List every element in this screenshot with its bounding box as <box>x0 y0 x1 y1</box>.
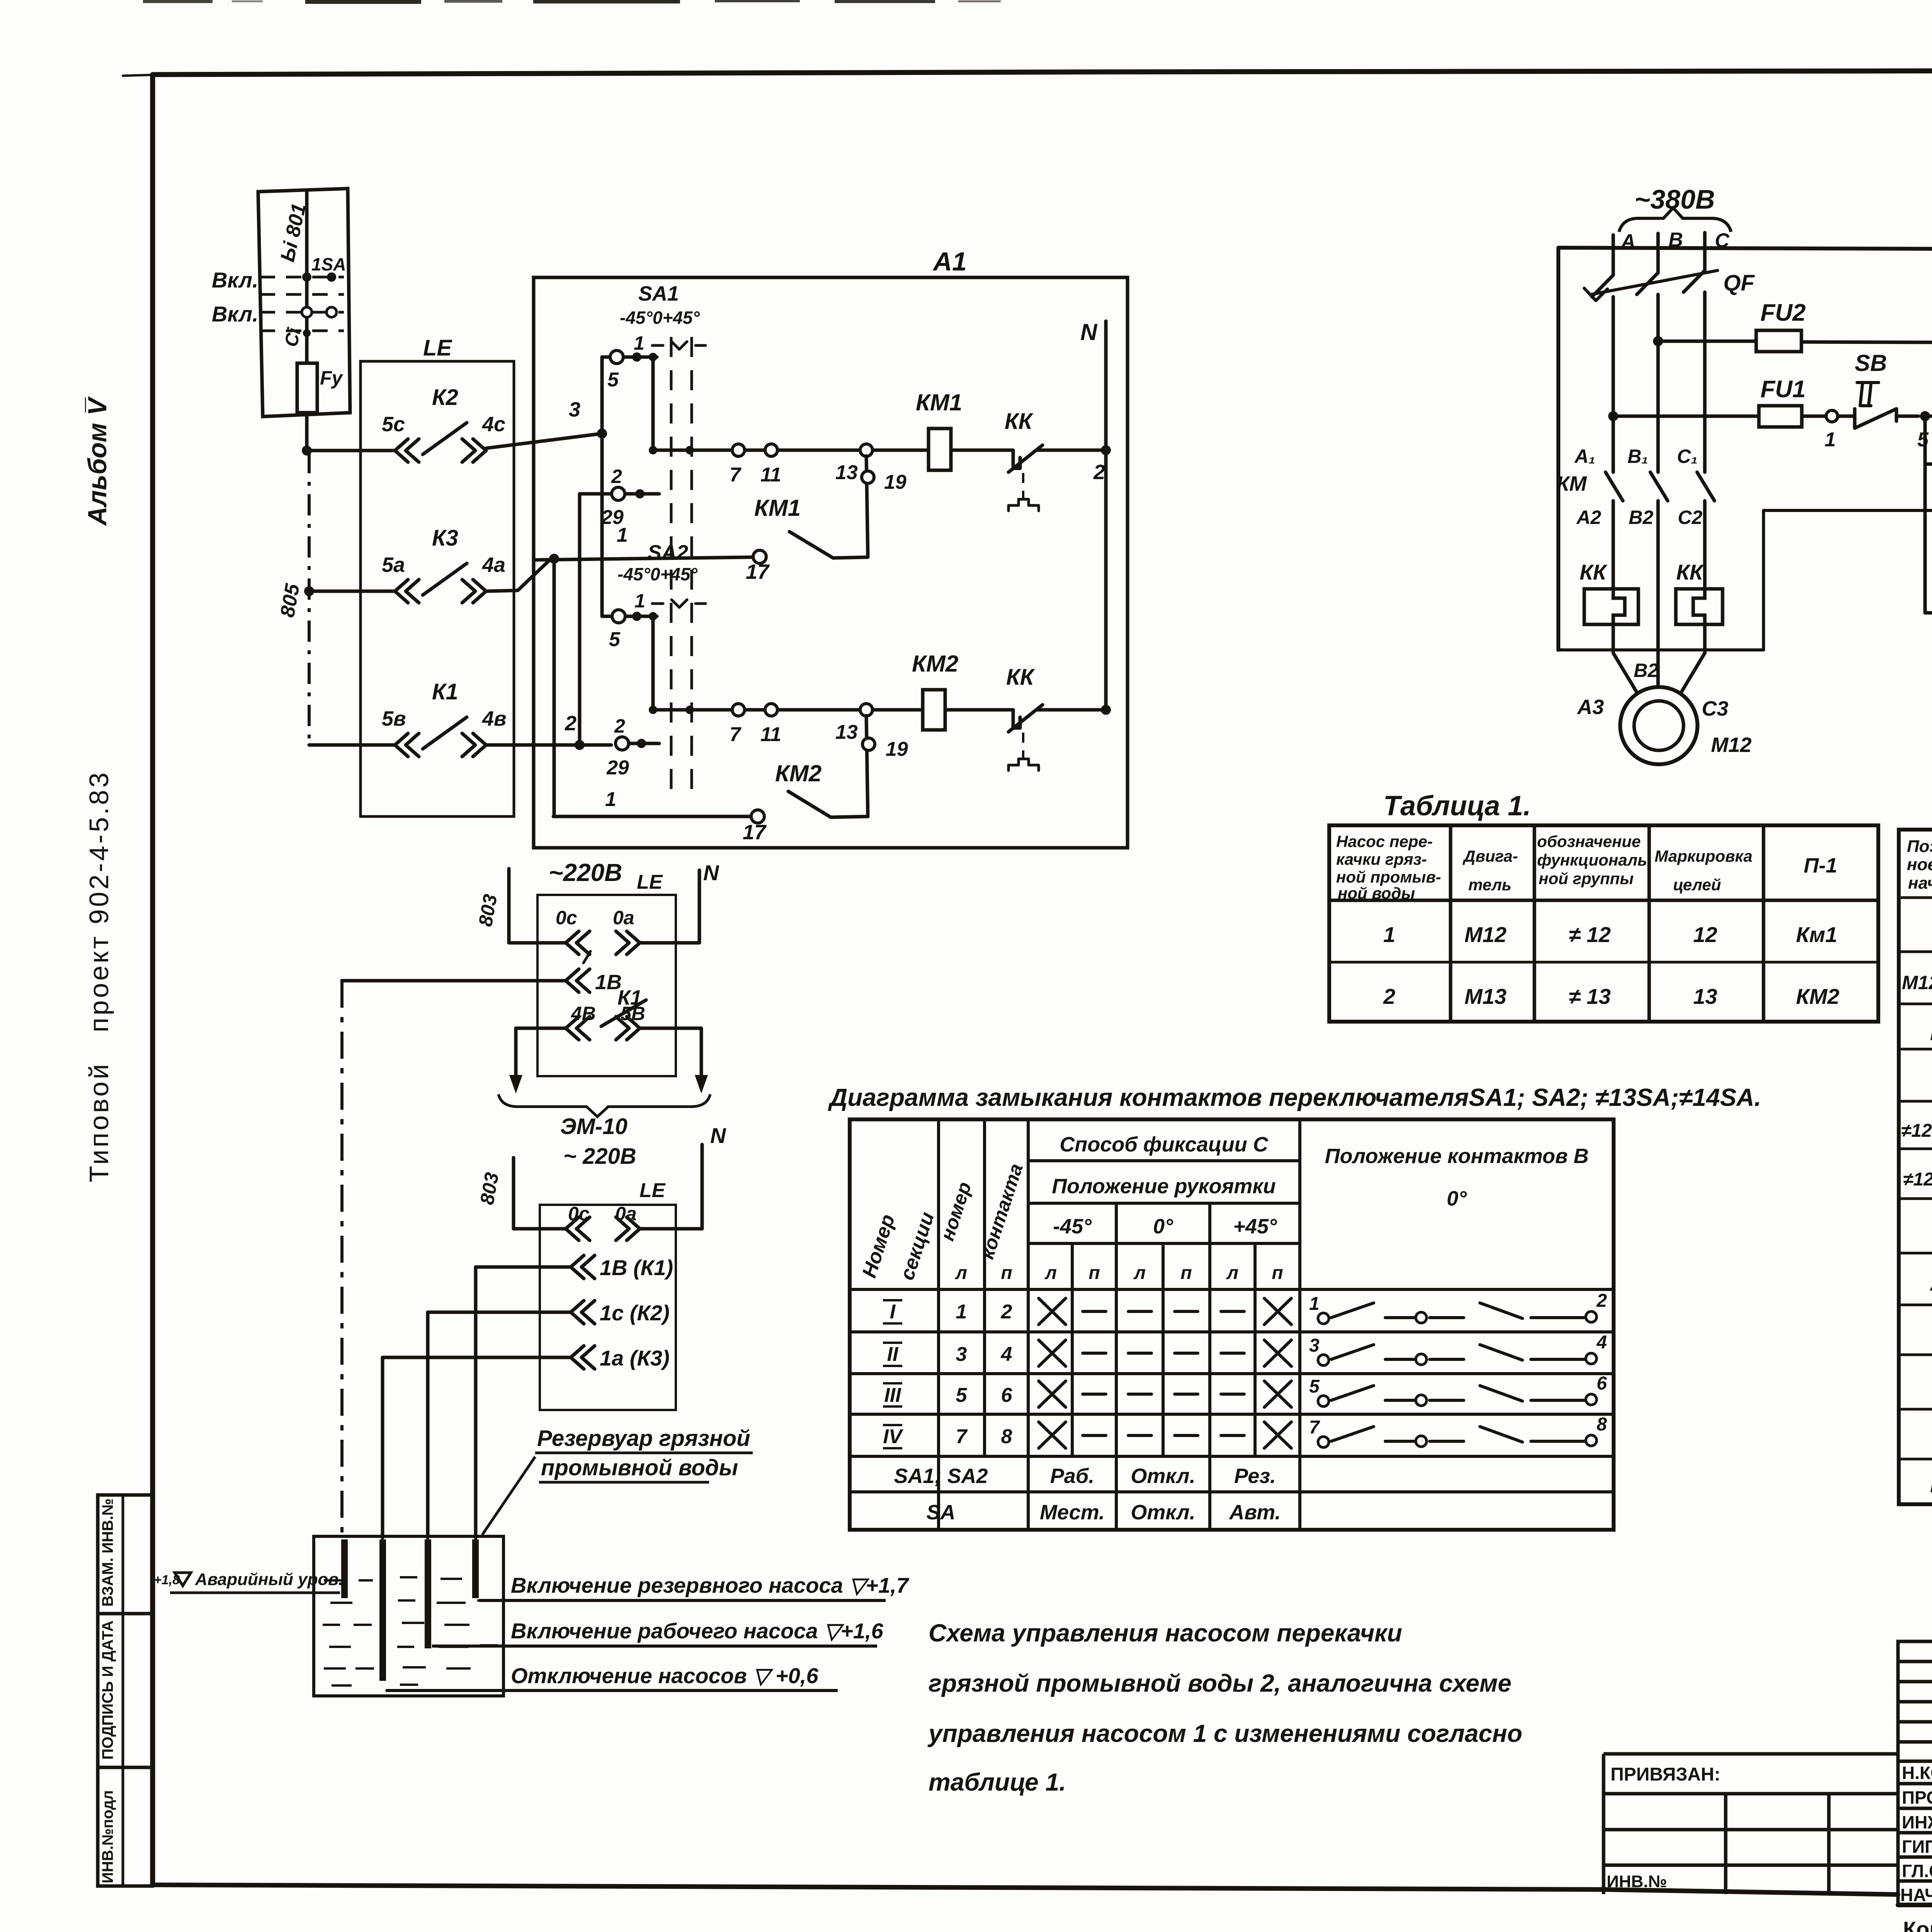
svg-text:1: 1 <box>1825 429 1836 451</box>
svg-text:п: п <box>1088 1263 1100 1283</box>
auxiliary contact KM2 row <box>553 760 868 844</box>
svg-text:НАЧ.ОТД: НАЧ.ОТД <box>1900 1885 1932 1905</box>
Table 1 <box>1329 791 1878 1022</box>
svg-text:7: 7 <box>1309 1417 1320 1438</box>
svg-text:+45°: +45° <box>1233 1215 1277 1238</box>
svg-text:Fу: Fу <box>320 367 344 389</box>
svg-text:функциональ: функциональ <box>1537 851 1647 869</box>
svg-text:ной группы: ной группы <box>1539 869 1634 888</box>
svg-text:Двига-: Двига- <box>1463 847 1518 865</box>
left margin vertical captions <box>83 396 114 1182</box>
svg-text:~ 220В: ~ 220В <box>563 1144 636 1169</box>
wire row 2 with contact K1 <box>309 679 611 757</box>
svg-text:5а: 5а <box>382 553 405 577</box>
svg-text:11: 11 <box>760 723 781 746</box>
svg-text:ной воды: ной воды <box>1338 884 1415 902</box>
svg-text:Позицион-: Позицион- <box>1907 837 1932 856</box>
coil row KM1 <box>653 444 929 486</box>
svg-text:обозначение: обозначение <box>1537 832 1641 850</box>
svg-text:Маркировка: Маркировка <box>1655 847 1752 865</box>
svg-text:л: л <box>955 1263 967 1283</box>
svg-text:13: 13 <box>835 461 858 484</box>
wire row with contact K3 <box>309 526 551 603</box>
svg-text:ной промыв-: ной промыв- <box>1336 868 1441 886</box>
fuse FU <box>297 363 317 413</box>
motor M12 <box>1577 653 1752 764</box>
svg-text:≠ 13: ≠ 13 <box>1569 984 1611 1009</box>
svg-text:В2: В2 <box>1634 660 1658 681</box>
svg-text:1SА: 1SА <box>311 254 346 274</box>
svg-text:Км1: Км1 <box>1796 922 1837 947</box>
svg-text:КК: КК <box>1006 665 1035 690</box>
svg-text:Вкл.: Вкл. <box>212 302 259 326</box>
svg-text:грязной промывной воды 2, анал: грязной промывной воды 2, аналогична схе… <box>929 1669 1512 1697</box>
svg-text:А1: А1 <box>932 247 967 276</box>
svg-text:5: 5 <box>1309 1376 1320 1397</box>
svg-text:ИНЖЕН.: ИНЖЕН. <box>1902 1812 1932 1832</box>
svg-text:12: 12 <box>1693 922 1717 947</box>
svg-text:-45°0+45°: -45°0+45° <box>617 564 697 584</box>
top-left input box (ЯУ) <box>212 189 350 451</box>
svg-text:управления насосом 1 с изменен: управления насосом 1 с изменениями согла… <box>927 1719 1522 1747</box>
wire 1B row <box>342 979 566 983</box>
note text <box>927 1619 1522 1796</box>
svg-text:л: л <box>1044 1263 1057 1283</box>
svg-text:целей: целей <box>1673 876 1721 894</box>
svg-text:8: 8 <box>1597 1414 1607 1435</box>
svg-text:К3: К3 <box>432 526 458 551</box>
svg-text:Откл.: Откл. <box>1131 1464 1195 1488</box>
svg-text:Включение рабочего насоса ▽+1: Включение рабочего насоса ▽+1,6 <box>511 1619 884 1643</box>
svg-text:В₁: В₁ <box>1628 446 1648 467</box>
svg-text:Мест.: Мест. <box>1040 1501 1105 1524</box>
coil row KM2 <box>653 704 923 746</box>
contactor KM main contacts <box>1556 446 1714 685</box>
svg-text:ИНВ.№подл: ИНВ.№подл <box>99 1790 116 1883</box>
svg-text:III: III <box>884 1384 901 1406</box>
svg-text:Диаграмма замыкания контактов: Диаграмма замыкания контактов переключат… <box>828 1083 1761 1111</box>
svg-text:ное обоз-: ное обоз- <box>1907 855 1932 874</box>
bus #12A <box>1558 221 1932 685</box>
svg-text:ПОДПИСЬ И ДАТА: ПОДПИСЬ И ДАТА <box>99 1621 116 1760</box>
svg-text:А3: А3 <box>1577 696 1604 719</box>
svg-text:5: 5 <box>609 628 621 651</box>
svg-text:2: 2 <box>614 715 625 737</box>
svg-text:А2: А2 <box>1576 507 1601 528</box>
box A outline <box>1558 344 1932 685</box>
svg-text:М13: М13 <box>1464 984 1507 1009</box>
svg-text:Вкл.: Вкл. <box>212 268 259 292</box>
LE block 2 (~220V) <box>342 859 726 1169</box>
svg-text:1с (К2): 1с (К2) <box>600 1301 670 1325</box>
svg-text:FU1: FU1 <box>1760 376 1806 403</box>
svg-text:LЕ: LЕ <box>637 871 663 893</box>
svg-text:≠12,13УА: ≠12,13УА <box>1901 1121 1932 1141</box>
svg-text:-45°0+45°: -45°0+45° <box>620 308 700 328</box>
start button SB <box>1925 319 1932 451</box>
svg-text:КМ1: КМ1 <box>754 495 801 521</box>
svg-text:1: 1 <box>634 332 645 354</box>
svg-text:QF: QF <box>1723 270 1755 296</box>
svg-text:Fу: Fу <box>1930 1473 1932 1497</box>
svg-text:19: 19 <box>884 471 906 493</box>
svg-text:М12: М12 <box>1464 922 1507 947</box>
svg-text:п: п <box>1180 1263 1192 1283</box>
svg-text:Таблица 1.: Таблица 1. <box>1383 791 1531 821</box>
contact closing diagram table <box>828 1083 1761 1530</box>
svg-text:4: 4 <box>1001 1343 1012 1366</box>
svg-text:IV: IV <box>883 1425 903 1448</box>
svg-text:13: 13 <box>835 721 858 743</box>
title block <box>1604 1641 1932 1932</box>
svg-text:Альбом V̅: Альбом V̅ <box>83 396 112 526</box>
svg-text:5с: 5с <box>382 413 405 436</box>
svg-text:Способ фиксации С: Способ фиксации С <box>1060 1133 1268 1156</box>
svg-text:ПРОВЕР.: ПРОВЕР. <box>1902 1787 1932 1808</box>
svg-text:п: п <box>1001 1263 1012 1283</box>
svg-text:5: 5 <box>956 1384 968 1406</box>
svg-text:Откл.: Откл. <box>1131 1501 1195 1524</box>
svg-text:0с: 0с <box>556 907 577 929</box>
wire 3 row with contact K2 <box>302 385 602 462</box>
svg-text:~220В: ~220В <box>549 859 622 886</box>
svg-text:тель: тель <box>1468 876 1512 894</box>
svg-text:29: 29 <box>601 506 624 529</box>
thermal contact KK (row 1) <box>1005 409 1111 511</box>
svg-text:2: 2 <box>1001 1301 1012 1323</box>
svg-text:3: 3 <box>1309 1335 1320 1356</box>
contactor coil KM2 <box>912 651 1008 730</box>
svg-text:КК: КК <box>1580 560 1607 584</box>
holding contact KM <box>1925 416 1932 480</box>
circuit-breaker QF <box>1584 233 1755 472</box>
svg-text:4а: 4а <box>482 553 505 577</box>
svg-text:FU2: FU2 <box>1760 299 1806 326</box>
svg-text:≠ 12: ≠ 12 <box>1569 922 1611 947</box>
svg-text:I: I <box>890 1301 896 1323</box>
switch SA2 <box>617 541 706 612</box>
svg-text:С₁: С₁ <box>1677 446 1698 467</box>
svg-text:N: N <box>710 1123 726 1148</box>
svg-text:Резервуар грязной: Резервуар грязной <box>537 1426 750 1451</box>
diagram table footer <box>894 1464 1281 1524</box>
svg-text:л: л <box>1226 1263 1238 1283</box>
svg-text:SА: SА <box>926 1501 955 1524</box>
wire junction down to KM2 aux <box>553 559 556 816</box>
contact K2 <box>395 439 419 462</box>
svg-text:3: 3 <box>956 1343 967 1366</box>
switch 1SA dashed rows <box>260 277 344 331</box>
svg-text:КМ1: КМ1 <box>916 389 962 415</box>
wire up from node 3 <box>600 357 604 434</box>
svg-text:2: 2 <box>611 466 622 487</box>
thermal heaters KK <box>1580 560 1723 653</box>
wire down to SA2 <box>600 357 604 616</box>
svg-text:М12: М12 <box>1711 733 1752 757</box>
svg-text:17: 17 <box>746 560 770 583</box>
fuse FU1 <box>1608 376 1838 451</box>
svg-text:Авт.: Авт. <box>1228 1501 1281 1524</box>
svg-text:КМ2: КМ2 <box>1796 984 1839 1009</box>
svg-text:КК: КК <box>1005 409 1034 434</box>
node 5 row SA2 <box>602 610 657 651</box>
svg-text:Копировал· Апсирова: Копировал· Апсирова <box>1903 1917 1932 1932</box>
reservoir label <box>482 1426 753 1535</box>
X marks and dashes <box>1039 1298 1291 1448</box>
svg-text:В2: В2 <box>1629 507 1653 528</box>
svg-text:1: 1 <box>1309 1294 1320 1314</box>
svg-text:0а: 0а <box>613 907 634 929</box>
svg-text:4в: 4в <box>482 707 507 730</box>
svg-text:19: 19 <box>886 738 908 760</box>
brace EM-10 <box>498 1094 710 1117</box>
wire 29 down to row 2 <box>578 494 582 743</box>
svg-text:ИНВ.№: ИНВ.№ <box>1607 1872 1667 1891</box>
contactor coil KM1 <box>916 389 1008 470</box>
arrows down to EM-10 <box>514 1028 518 1080</box>
switch position sketches <box>1309 1291 1607 1447</box>
svg-text:п: п <box>1272 1263 1283 1283</box>
svg-text:7: 7 <box>730 464 742 486</box>
svg-text:1: 1 <box>1383 922 1395 947</box>
interposing relay П-1 <box>1925 464 1932 658</box>
auxiliary contact KM1 row <box>534 461 1105 583</box>
svg-text:5: 5 <box>1917 429 1929 451</box>
wire node5 SA2 to coil row 2 <box>649 616 657 714</box>
svg-text:5в: 5в <box>382 707 406 730</box>
svg-text:А1: А1 <box>1929 1271 1932 1295</box>
svg-text:Типовой проект 902-4-5.83: Типовой проект 902-4-5.83 <box>84 770 114 1182</box>
svg-text:0°: 0° <box>1447 1187 1467 1210</box>
parts list table <box>1899 830 1932 1504</box>
thermal contact KK (row 2) <box>1006 665 1111 770</box>
switch SA1 <box>620 282 706 794</box>
svg-text:Рез.: Рез. <box>1234 1464 1276 1488</box>
svg-text:4с: 4с <box>482 413 505 436</box>
node 29 row SA1 <box>580 466 659 529</box>
svg-text:1В (К1): 1В (К1) <box>600 1255 673 1280</box>
LE block 3 <box>383 1145 702 1410</box>
svg-text:Раб.: Раб. <box>1050 1464 1095 1488</box>
svg-text:ЭМ-10: ЭМ-10 <box>560 1114 628 1139</box>
svg-text:К2: К2 <box>432 385 458 410</box>
level marks <box>154 1570 910 1690</box>
svg-text:2: 2 <box>1383 984 1395 1009</box>
fuse FU2 <box>1653 299 1932 352</box>
svg-text:М12, М13: М12, М13 <box>1902 972 1932 993</box>
node 5 row SA1 <box>602 350 657 391</box>
svg-text:Аварийный уров.: Аварийный уров. <box>195 1570 343 1589</box>
box A1 outline <box>534 247 1128 848</box>
svg-text:LЕ: LЕ <box>1930 1020 1932 1045</box>
diagram table data rows <box>883 1301 1012 1448</box>
svg-text:SА1: SА1 <box>638 282 679 305</box>
380V supply label and brace <box>1619 184 1731 253</box>
svg-text:1: 1 <box>605 788 616 811</box>
svg-text:КМ2: КМ2 <box>912 651 958 677</box>
svg-text:N: N <box>703 861 719 885</box>
svg-text:LЕ: LЕ <box>639 1179 666 1202</box>
svg-text:ВЗАМ. ИНВ.№: ВЗАМ. ИНВ.№ <box>99 1498 116 1607</box>
svg-text:2: 2 <box>1596 1291 1607 1311</box>
svg-text:Включение резервного насоса ▽+: Включение резервного насоса ▽+1,7 <box>511 1573 910 1597</box>
node 29 row SA2 <box>606 715 659 779</box>
svg-text:29: 29 <box>606 757 629 779</box>
svg-text:С2: С2 <box>1678 507 1702 528</box>
svg-text:SА1; SА2: SА1; SА2 <box>894 1464 988 1488</box>
svg-text:А₁: А₁ <box>1574 446 1595 467</box>
svg-text:таблице 1.: таблице 1. <box>929 1768 1066 1796</box>
electrode wires down to tank <box>342 981 476 1538</box>
reservoir tank <box>314 1536 503 1696</box>
svg-text:0°: 0° <box>1153 1215 1173 1238</box>
svg-text:л: л <box>1133 1263 1146 1283</box>
row 1B(K1) <box>476 1265 571 1269</box>
svg-text:1: 1 <box>956 1301 967 1323</box>
svg-text:Отключение насосов ▽ +0,6: Отключение насосов ▽ +0,6 <box>511 1663 818 1688</box>
node 13/19 drop row 2 <box>862 716 908 816</box>
svg-text:7: 7 <box>730 723 742 746</box>
svg-text:≠12;≠13: ≠12;≠13 <box>1903 1169 1932 1190</box>
svg-text:КМ2: КМ2 <box>775 760 821 786</box>
svg-text:Положение рукоятки: Положение рукоятки <box>1052 1175 1276 1198</box>
svg-text:промывной воды: промывной воды <box>541 1455 738 1480</box>
svg-text:1а (К3): 1а (К3) <box>600 1346 670 1370</box>
svg-text:13: 13 <box>1693 984 1717 1009</box>
LE level-controller box 1 <box>361 335 514 816</box>
scan smudges top edge <box>143 0 1932 62</box>
svg-text:6: 6 <box>1001 1384 1013 1406</box>
svg-text:2: 2 <box>565 712 577 735</box>
svg-text:-45°: -45° <box>1053 1215 1092 1238</box>
stop button SB <box>1838 350 1930 451</box>
svg-text:Положение контактов В: Положение контактов В <box>1325 1145 1589 1168</box>
svg-text:8: 8 <box>1001 1425 1012 1448</box>
svg-text:Схема управления насосом пере: Схема управления насосом перекачки <box>929 1619 1402 1647</box>
node 13/19 drop <box>862 456 906 557</box>
row 1a(K3) <box>383 1356 571 1359</box>
svg-text:N: N <box>1080 319 1098 345</box>
svg-text:II: II <box>887 1343 899 1366</box>
svg-text:ГИП: ГИП <box>1902 1837 1932 1857</box>
left margin stamp column (Инв № подл / Подпись и дата / Взам. инв. №) <box>98 1495 152 1886</box>
svg-text:КМ: КМ <box>1556 472 1587 495</box>
svg-text:К1: К1 <box>432 679 458 704</box>
wire 805 vertical dash-dot <box>276 452 314 745</box>
node N wire <box>1080 319 1106 710</box>
svg-text:КК: КК <box>1676 560 1704 584</box>
svg-text:С3: С3 <box>1702 697 1728 720</box>
svg-text:SВ: SВ <box>1855 350 1887 376</box>
svg-text:Н.КОНТР.: Н.КОНТР. <box>1902 1763 1932 1783</box>
svg-text:4: 4 <box>1596 1332 1607 1353</box>
svg-text:LЕ: LЕ <box>423 335 452 361</box>
svg-text:П-1: П-1 <box>1804 854 1837 877</box>
svg-text:2: 2 <box>1093 461 1105 484</box>
svg-text:качки гряз-: качки гряз- <box>1336 850 1427 868</box>
wire L1 into box <box>305 190 309 363</box>
svg-text:ПРИВЯЗАН:: ПРИВЯЗАН: <box>1611 1764 1720 1785</box>
svg-text:ГЛ.СПЕЦ.: ГЛ.СПЕЦ. <box>1902 1861 1932 1881</box>
svg-text:6: 6 <box>1597 1373 1607 1394</box>
wire node5 to coil row <box>649 357 657 454</box>
svg-text:начение: начение <box>1908 874 1932 893</box>
svg-text:3: 3 <box>569 398 580 421</box>
svg-text:7: 7 <box>956 1425 968 1448</box>
svg-text:1: 1 <box>634 590 645 612</box>
svg-text:11: 11 <box>760 464 781 486</box>
svg-text:17: 17 <box>743 821 767 844</box>
svg-text:5: 5 <box>607 369 619 391</box>
svg-text:SА2: SА2 <box>648 541 688 564</box>
row 1c(K2) <box>428 1311 571 1314</box>
svg-text:Насос пере-: Насос пере- <box>1336 832 1433 850</box>
